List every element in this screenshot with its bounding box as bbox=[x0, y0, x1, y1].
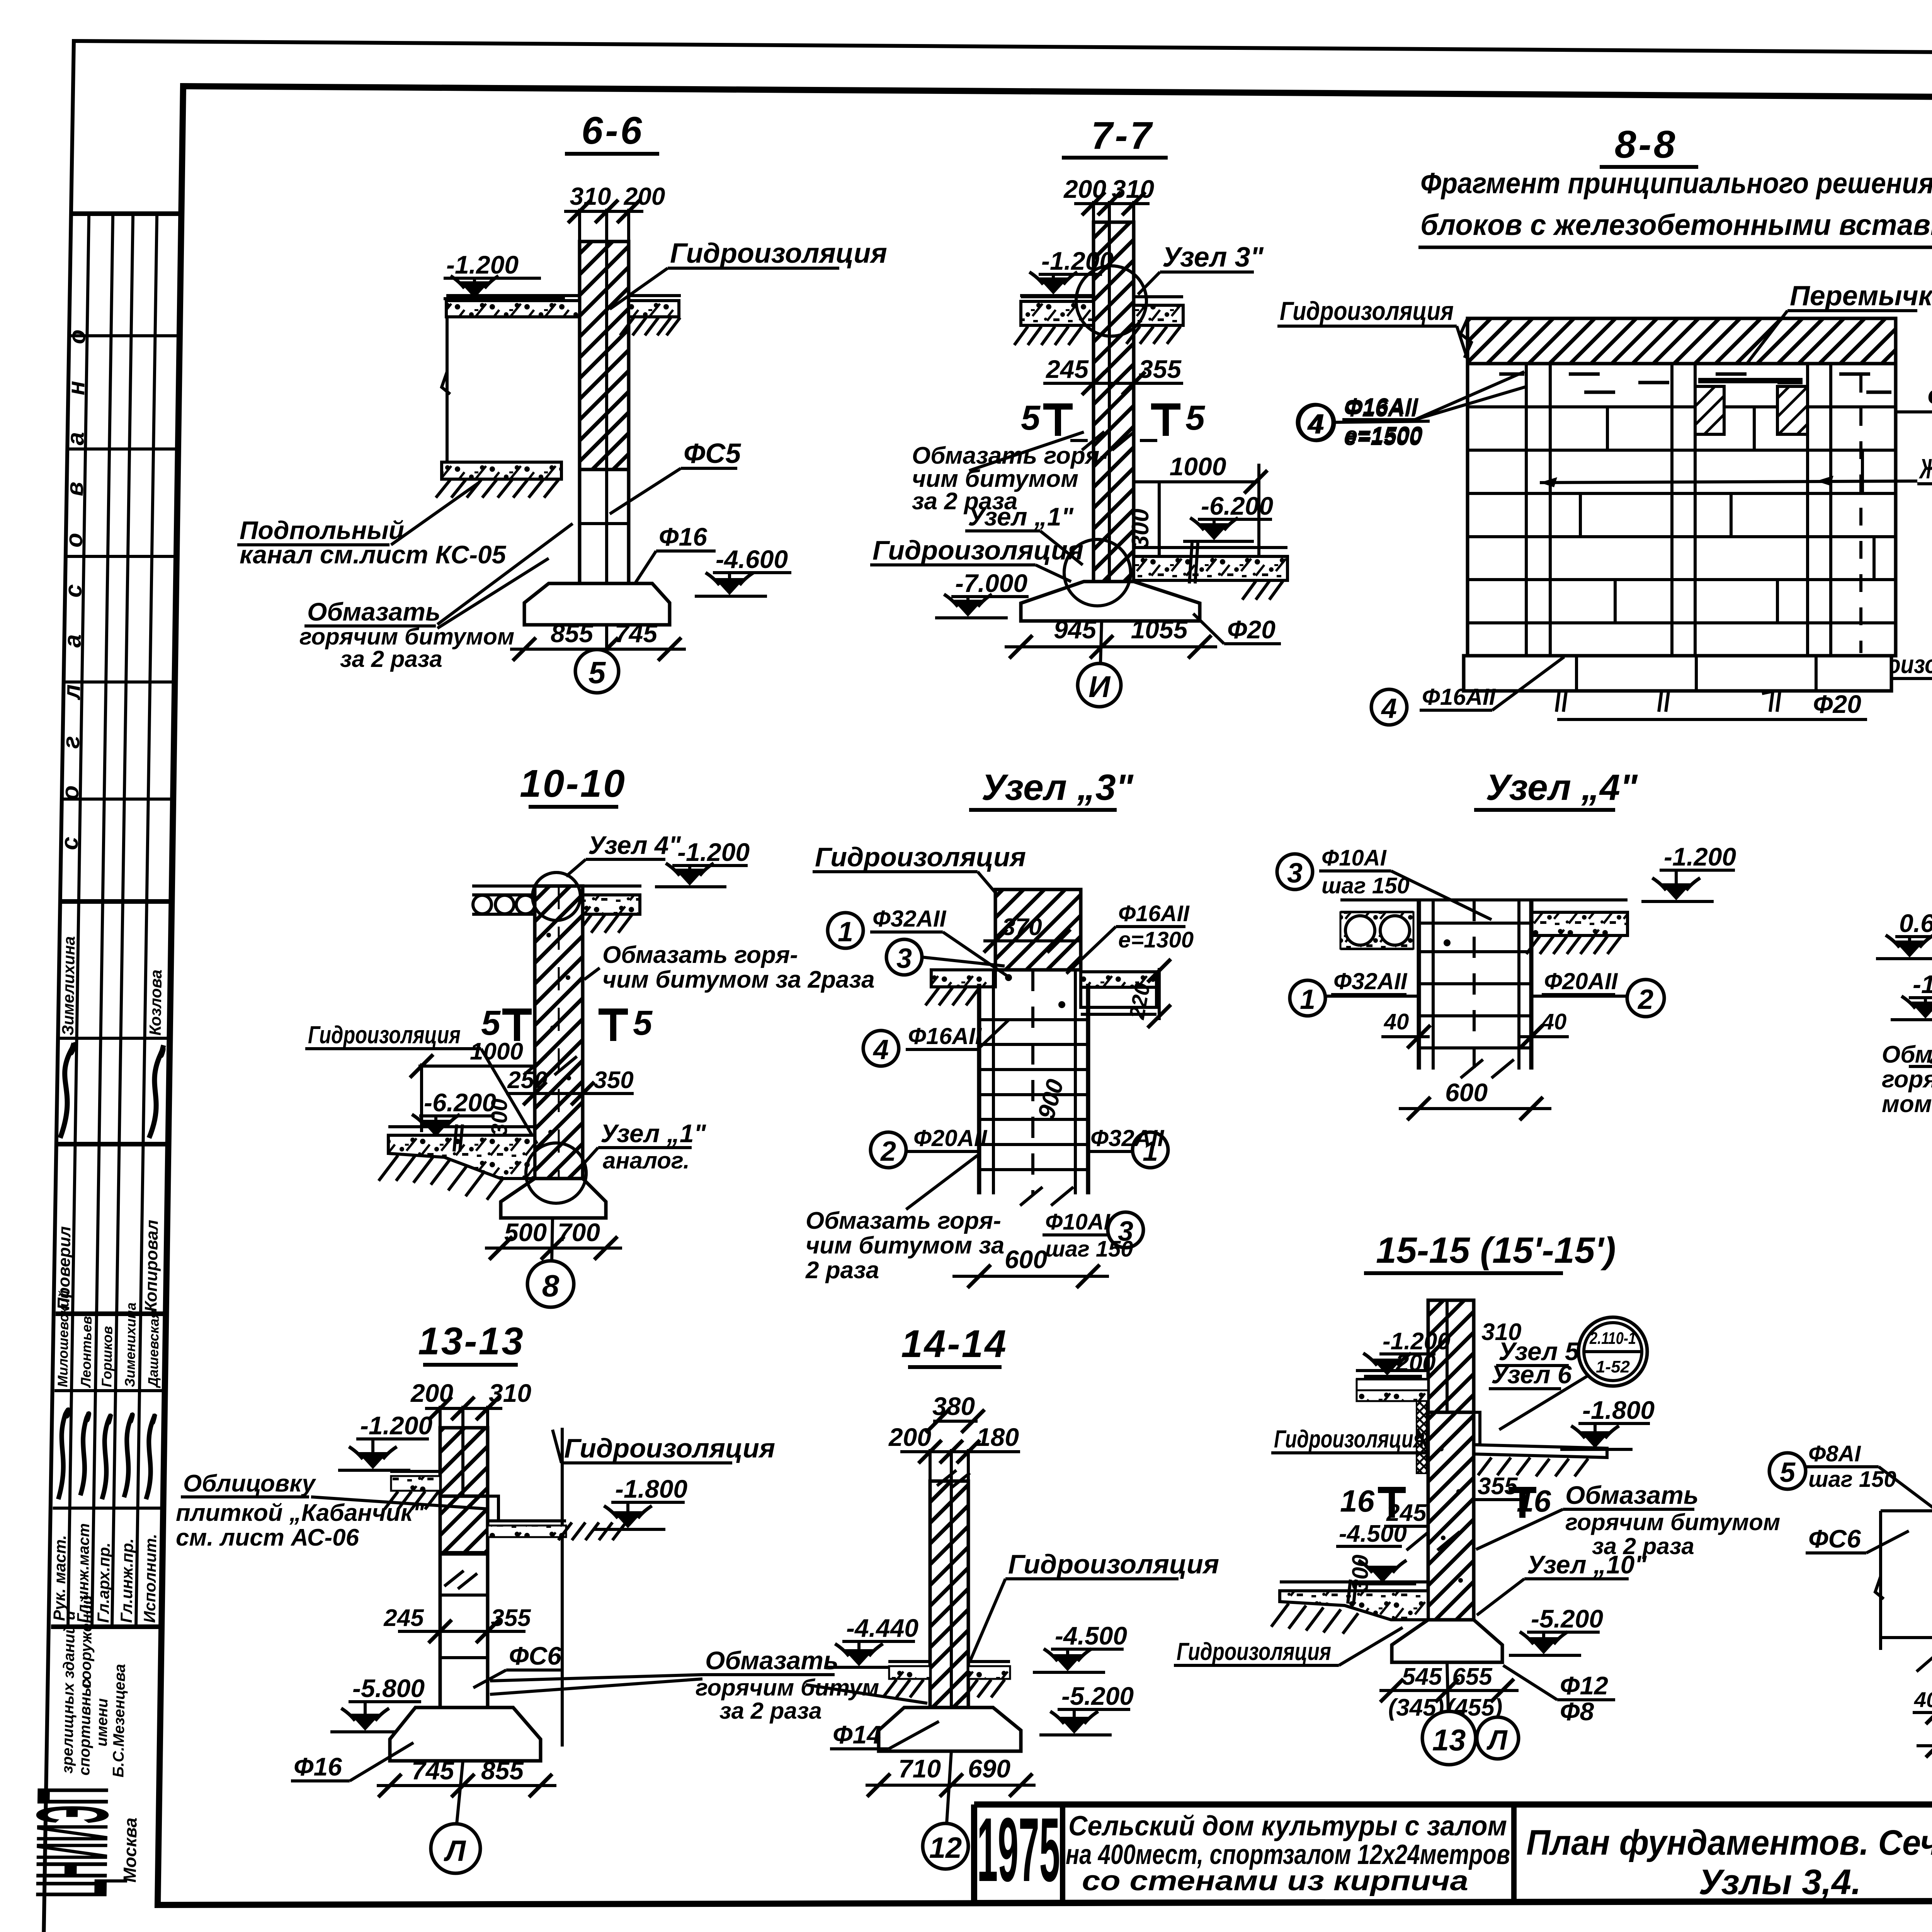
svg-text:0.600: 0.600 bbox=[1899, 909, 1932, 937]
svg-text:Узел „1": Узел „1" bbox=[968, 502, 1074, 531]
svg-text:-6.200: -6.200 bbox=[424, 1088, 496, 1117]
svg-text:14-14: 14-14 bbox=[901, 1322, 1008, 1366]
svg-text:Дашевская: Дашевская bbox=[145, 1310, 162, 1388]
svg-text:ФС6: ФС6 bbox=[509, 1641, 562, 1670]
svg-text:1000: 1000 bbox=[1170, 452, 1226, 481]
svg-text:200: 200 bbox=[888, 1423, 931, 1451]
svg-text:мом за 2 раза: мом за 2 раза bbox=[1882, 1091, 1932, 1117]
svg-text:3: 3 bbox=[1287, 858, 1303, 889]
svg-text:40: 40 bbox=[1384, 1009, 1409, 1034]
svg-text:Обмазать горя-: Обмазать горя- bbox=[806, 1207, 1001, 1234]
svg-text:Узел „3": Узел „3" bbox=[981, 767, 1134, 808]
svg-text:Ф20: Ф20 bbox=[1813, 690, 1861, 718]
svg-text:Ф32АII: Ф32АII bbox=[872, 906, 947, 932]
svg-text:-1.800: -1.800 bbox=[1582, 1396, 1655, 1424]
svg-text:4: 4 bbox=[1308, 409, 1324, 440]
svg-text:2 раза: 2 раза bbox=[805, 1257, 879, 1284]
svg-text:13: 13 bbox=[1432, 1723, 1466, 1757]
svg-text:Ф12: Ф12 bbox=[1560, 1671, 1608, 1700]
svg-text:690: 690 bbox=[968, 1754, 1010, 1783]
svg-text:12: 12 bbox=[929, 1832, 962, 1864]
svg-text:Гидроизоляция: Гидроизоляция bbox=[815, 842, 1026, 872]
svg-text:Ф16: Ф16 bbox=[659, 522, 707, 551]
svg-text:Л: Л bbox=[1486, 1725, 1508, 1756]
svg-text:Б.С.Мезенцева: Б.С.Мезенцева bbox=[110, 1664, 128, 1777]
svg-text:-4.600: -4.600 bbox=[716, 545, 788, 573]
svg-text:шаг 150: шаг 150 bbox=[1321, 873, 1410, 898]
svg-text:Ф16АII: Ф16АII bbox=[908, 1023, 982, 1049]
svg-text:5: 5 bbox=[1780, 1457, 1796, 1488]
svg-text:16: 16 bbox=[1517, 1484, 1551, 1518]
svg-text:Узел „4": Узел „4" bbox=[1486, 767, 1638, 808]
svg-text:Узел 4": Узел 4" bbox=[588, 831, 681, 859]
svg-text:Сельский дом культуры с залом: Сельский дом культуры с залом bbox=[1068, 1811, 1507, 1842]
svg-text:1055: 1055 bbox=[1131, 615, 1188, 644]
svg-text:горячим биту-: горячим биту- bbox=[1882, 1066, 1932, 1093]
svg-text:ФС5: ФС5 bbox=[684, 438, 741, 469]
svg-text:Перемычки: Перемычки bbox=[1790, 281, 1932, 311]
svg-text:5: 5 bbox=[588, 655, 606, 690]
svg-text:350: 350 bbox=[594, 1067, 633, 1094]
svg-text:Обмазать: Обмазать bbox=[307, 597, 440, 626]
svg-text:Гидроизоляция: Гидроизоляция bbox=[564, 1433, 775, 1463]
svg-text:ФС6: ФС6 bbox=[1927, 382, 1932, 413]
svg-text:200: 200 bbox=[624, 182, 665, 210]
svg-text:Обмазать: Обмазать bbox=[1882, 1041, 1932, 1068]
svg-text:180: 180 bbox=[976, 1423, 1019, 1451]
svg-text:370: 370 bbox=[1002, 914, 1042, 940]
svg-text:500: 500 bbox=[504, 1218, 547, 1247]
svg-text:-1.200: -1.200 bbox=[1913, 970, 1932, 998]
svg-text:горячим битумом: горячим битумом bbox=[1565, 1509, 1780, 1535]
svg-text:Горшков: Горшков bbox=[99, 1326, 115, 1387]
svg-text:спортивных: спортивных bbox=[76, 1674, 94, 1776]
svg-text:Милошевский: Милошевский bbox=[54, 1290, 72, 1387]
svg-text:Гл.инж.пр.: Гл.инж.пр. bbox=[117, 1538, 136, 1623]
svg-text:855: 855 bbox=[551, 619, 594, 648]
svg-text:е=1500: е=1500 bbox=[1345, 422, 1423, 448]
svg-text:Рук. маст.: Рук. маст. bbox=[50, 1535, 69, 1621]
svg-text:3: 3 bbox=[896, 943, 912, 974]
svg-text:40: 40 bbox=[1541, 1009, 1567, 1034]
svg-text:2: 2 bbox=[1637, 984, 1653, 1015]
svg-text:Ф16АII: Ф16АII bbox=[1422, 684, 1496, 710]
svg-text:Гидроизоляция: Гидроизоляция bbox=[872, 535, 1083, 565]
svg-text:710: 710 bbox=[898, 1754, 941, 1783]
svg-text:Ф20: Ф20 bbox=[1227, 615, 1276, 644]
svg-text:4: 4 bbox=[1381, 693, 1397, 724]
svg-text:Узел „10": Узел „10" bbox=[1527, 1550, 1647, 1579]
svg-text:Узел 6: Узел 6 bbox=[1491, 1360, 1572, 1389]
svg-text:-1.200: -1.200 bbox=[446, 250, 519, 279]
svg-text:чим битумом за: чим битумом за bbox=[806, 1232, 1004, 1259]
svg-text:200: 200 bbox=[1395, 1350, 1435, 1376]
svg-text:Гидроизоляция: Гидроизоляция bbox=[1008, 1549, 1219, 1579]
svg-text:10-10: 10-10 bbox=[520, 762, 626, 805]
svg-text:см. лист АС-06: см. лист АС-06 bbox=[176, 1524, 359, 1551]
svg-text:600: 600 bbox=[1445, 1078, 1488, 1107]
svg-text:Ф10АI: Ф10АI bbox=[1321, 845, 1387, 871]
svg-text:Ф16АII: Ф16АII bbox=[1118, 901, 1190, 926]
svg-text:900: 900 bbox=[1033, 1077, 1069, 1122]
svg-text:245: 245 bbox=[383, 1605, 424, 1631]
svg-text:-7.000: -7.000 bbox=[955, 569, 1027, 597]
svg-text:-1.200: -1.200 bbox=[1664, 842, 1736, 871]
svg-text:-5.200: -5.200 bbox=[1531, 1604, 1603, 1633]
svg-text:План фундаментов. Сечения 6-6: План фундаментов. Сечения 6-6 ÷16-16. bbox=[1526, 1823, 1932, 1862]
svg-text:-4.500: -4.500 bbox=[1055, 1621, 1127, 1650]
svg-text:Узлы 3,4.: Узлы 3,4. bbox=[1699, 1862, 1861, 1902]
svg-text:Зименихина: Зименихина bbox=[122, 1303, 139, 1387]
svg-text:745: 745 bbox=[412, 1756, 454, 1785]
svg-text:Ф10АI: Ф10АI bbox=[1045, 1209, 1111, 1235]
svg-text:Ф16АII: Ф16АII bbox=[1345, 393, 1419, 419]
svg-text:Ф32АII: Ф32АII bbox=[1090, 1125, 1165, 1151]
svg-text:Обмазать: Обмазать bbox=[1565, 1481, 1699, 1509]
svg-text:355: 355 bbox=[1478, 1473, 1518, 1500]
svg-text:Исполнит.: Исполнит. bbox=[140, 1534, 160, 1623]
svg-text:40: 40 bbox=[1914, 1687, 1932, 1712]
svg-text:310: 310 bbox=[570, 182, 611, 210]
svg-text:имени: имени bbox=[93, 1698, 111, 1747]
svg-text:355: 355 bbox=[491, 1605, 531, 1631]
svg-text:1-52: 1-52 bbox=[1596, 1357, 1630, 1376]
svg-text:е=1300: е=1300 bbox=[1118, 927, 1194, 952]
svg-text:ФС6: ФС6 bbox=[1808, 1524, 1861, 1553]
svg-text:аналог.: аналог. bbox=[603, 1148, 690, 1173]
svg-text:300: 300 bbox=[1348, 1554, 1373, 1592]
svg-text:Ф20АII: Ф20АII bbox=[1544, 968, 1618, 994]
svg-text:за 2 раза: за 2 раза bbox=[719, 1698, 822, 1724]
svg-text:зрелищных зданий и: зрелищных зданий и bbox=[59, 1611, 78, 1774]
svg-text:15-15 (15'-15'): 15-15 (15'-15') bbox=[1376, 1230, 1616, 1271]
svg-text:Обмазать: Обмазать bbox=[705, 1646, 838, 1675]
svg-text:700: 700 bbox=[558, 1218, 600, 1247]
svg-text:Л: Л bbox=[444, 1835, 466, 1867]
svg-text:4: 4 bbox=[872, 1034, 889, 1065]
svg-text:355: 355 bbox=[1139, 355, 1182, 383]
svg-text:Зимелихина: Зимелихина bbox=[59, 936, 78, 1036]
svg-text:655: 655 bbox=[1452, 1663, 1493, 1690]
svg-text:за 2 раза: за 2 раза bbox=[340, 646, 442, 672]
svg-text:1000: 1000 bbox=[470, 1038, 523, 1065]
svg-text:Леонтьев: Леонтьев bbox=[78, 1316, 95, 1388]
svg-text:5: 5 bbox=[1021, 399, 1041, 437]
svg-text:-5.800: -5.800 bbox=[352, 1674, 425, 1702]
svg-text:5: 5 bbox=[633, 1004, 653, 1043]
svg-text:245: 245 bbox=[1045, 355, 1089, 383]
svg-text:3: 3 bbox=[1118, 1216, 1133, 1247]
svg-text:Ф20АII: Ф20АII bbox=[913, 1125, 988, 1151]
svg-text:Гидроизоляция: Гидроизоляция bbox=[1274, 1425, 1425, 1453]
svg-text:Гл.арх.пр.: Гл.арх.пр. bbox=[94, 1543, 113, 1623]
svg-text:1975: 1975 bbox=[977, 1799, 1060, 1900]
svg-text:300: 300 bbox=[1127, 509, 1154, 549]
svg-text:5: 5 bbox=[481, 1004, 501, 1043]
svg-text:16: 16 bbox=[1340, 1484, 1374, 1518]
svg-text:согласовано: согласовано bbox=[56, 293, 91, 850]
svg-text:Ф8: Ф8 bbox=[1560, 1697, 1594, 1726]
svg-text:745: 745 bbox=[615, 619, 658, 648]
svg-text:Узел „1": Узел „1" bbox=[600, 1119, 706, 1148]
svg-text:6-6: 6-6 bbox=[582, 109, 645, 152]
svg-text:-5.200: -5.200 bbox=[1061, 1682, 1134, 1710]
svg-text:блоков с железобетонными встав: блоков с железобетонными вставками bbox=[1420, 209, 1932, 241]
svg-text:Гидроизоляция: Гидроизоляция bbox=[308, 1021, 461, 1049]
svg-text:1: 1 bbox=[1300, 984, 1315, 1015]
svg-text:Ф14: Ф14 bbox=[833, 1720, 881, 1749]
svg-text:Обмазать горя-: Обмазать горя- bbox=[602, 942, 798, 968]
svg-text:855: 855 bbox=[481, 1756, 524, 1785]
svg-text:600: 600 bbox=[1005, 1245, 1047, 1274]
svg-text:-4.440: -4.440 bbox=[846, 1614, 918, 1642]
svg-text:8-8: 8-8 bbox=[1615, 123, 1678, 166]
svg-text:380: 380 bbox=[932, 1392, 975, 1420]
svg-text:1: 1 bbox=[838, 917, 853, 947]
svg-text:-1.200: -1.200 bbox=[1041, 247, 1114, 275]
svg-text:-1.200: -1.200 bbox=[677, 838, 750, 866]
svg-text:-6.200: -6.200 bbox=[1201, 492, 1273, 520]
svg-text:Гидроизоляция: Гидроизоляция bbox=[670, 238, 887, 269]
svg-text:Москва: Москва bbox=[119, 1818, 140, 1883]
svg-text:Ф8АI: Ф8АI bbox=[1808, 1441, 1861, 1466]
svg-text:945: 945 bbox=[1054, 615, 1097, 644]
svg-text:7-7: 7-7 bbox=[1091, 114, 1154, 157]
svg-text:И: И bbox=[1088, 670, 1111, 704]
svg-text:сооружений: сооружений bbox=[77, 1595, 96, 1689]
svg-text:2.110-1: 2.110-1 bbox=[1589, 1329, 1636, 1348]
svg-text:Фрагмент принципиального решен: Фрагмент принципиального решения стенки … bbox=[1420, 167, 1932, 200]
svg-text:Козлова: Козлова bbox=[146, 969, 165, 1036]
svg-text:Копировал: Копировал bbox=[141, 1220, 162, 1312]
svg-text:горячим битумом: горячим битумом bbox=[299, 624, 514, 650]
svg-text:Гидроизоляция: Гидроизоляция bbox=[1177, 1638, 1331, 1665]
svg-text:8: 8 bbox=[542, 1269, 560, 1303]
svg-text:Гидроизоляция: Гидроизоляция bbox=[1280, 296, 1454, 326]
svg-text:13-13: 13-13 bbox=[418, 1320, 525, 1363]
svg-text:310: 310 bbox=[1112, 175, 1154, 203]
svg-text:Облицовку: Облицовку bbox=[183, 1470, 316, 1497]
svg-text:Железобетонные: Железобетонные bbox=[1918, 454, 1932, 485]
svg-text:2: 2 bbox=[880, 1136, 896, 1167]
svg-text:-1.800: -1.800 bbox=[615, 1475, 687, 1503]
svg-text:-4.500: -4.500 bbox=[1339, 1520, 1407, 1547]
svg-text:-1.200: -1.200 bbox=[360, 1411, 432, 1440]
svg-text:канал см.лист КС-05: канал см.лист КС-05 bbox=[240, 540, 507, 569]
svg-text:со стенами из кирпича: со стенами из кирпича bbox=[1082, 1866, 1468, 1896]
svg-text:Ф32АII: Ф32АII bbox=[1333, 968, 1408, 994]
svg-text:5: 5 bbox=[1185, 399, 1206, 437]
svg-text:Узел 3": Узел 3" bbox=[1162, 242, 1264, 273]
svg-text:ЦНИИЭП: ЦНИИЭП bbox=[14, 1787, 130, 1898]
svg-text:горячим битум: горячим битум bbox=[696, 1675, 879, 1701]
svg-text:545: 545 bbox=[1402, 1663, 1442, 1690]
svg-text:чим битумом за 2раза: чим битумом за 2раза bbox=[602, 966, 875, 993]
svg-text:Ф16: Ф16 bbox=[294, 1752, 342, 1781]
